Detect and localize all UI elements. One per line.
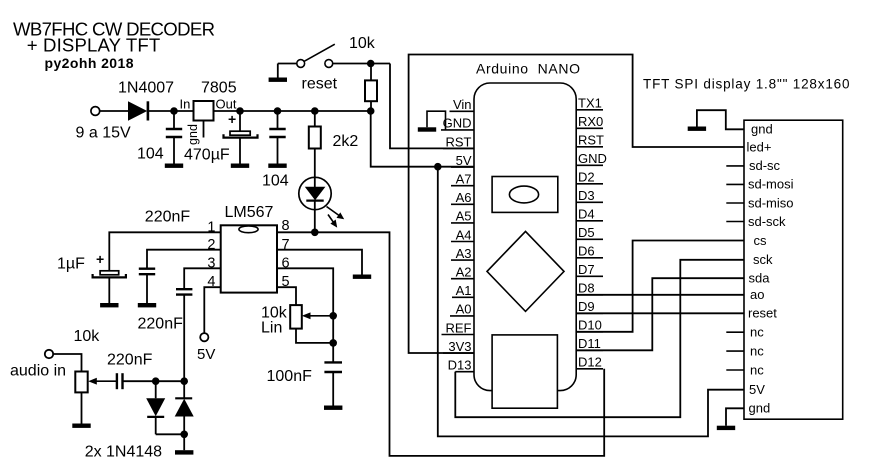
wire D8 to TFT ao — [576, 294, 744, 296]
svg-text:RST: RST — [578, 133, 604, 148]
svg-text:RX0: RX0 — [578, 114, 603, 129]
arduino chip diamond — [487, 231, 564, 311]
ground — [269, 78, 287, 82]
svg-text:104: 104 — [137, 146, 164, 163]
svg-text:gnd: gnd — [186, 124, 200, 145]
svg-text:Vin: Vin — [453, 97, 472, 112]
svg-text:A1: A1 — [456, 283, 472, 298]
svg-text:nc: nc — [750, 325, 764, 340]
wire — [156, 433, 185, 435]
svg-text:5V: 5V — [749, 382, 765, 397]
svg-text:audio in: audio in — [10, 363, 66, 380]
wire GND pin to ground — [427, 111, 446, 130]
node junction — [367, 107, 375, 115]
arduino usb connector — [492, 335, 557, 408]
svg-text:GND: GND — [443, 116, 472, 131]
wire pin3 — [184, 268, 221, 288]
resistor R2 10k — [370, 64, 372, 81]
svg-text:nc: nc — [750, 343, 764, 358]
svg-text:A5: A5 — [456, 209, 472, 224]
svg-text:gnd: gnd — [749, 401, 771, 416]
node junction — [434, 163, 442, 171]
svg-text:220nF: 220nF — [107, 352, 153, 369]
ground — [353, 275, 371, 279]
svg-text:D4: D4 — [578, 207, 595, 222]
wire pin8 to D12 — [277, 232, 604, 456]
svg-text:sck: sck — [753, 252, 773, 267]
svg-text:Arduino NANO: Arduino NANO — [476, 61, 580, 77]
potentiometer R4 10k Lin — [290, 305, 302, 329]
svg-text:D10: D10 — [578, 318, 602, 333]
svg-text:220nF: 220nF — [138, 316, 184, 333]
capacitor C6 220nF — [176, 288, 192, 290]
svg-text:sda: sda — [749, 271, 771, 286]
svg-text:220nF: 220nF — [145, 209, 191, 226]
svg-text:D3: D3 — [578, 188, 595, 203]
capacitor C4 1uF — [100, 271, 119, 275]
svg-text:TX1: TX1 — [578, 96, 602, 111]
svg-text:py2ohh 2018: py2ohh 2018 — [45, 55, 134, 71]
svg-text:cs: cs — [754, 233, 768, 248]
svg-text:+ DISPLAY TFT: + DISPLAY TFT — [27, 35, 161, 56]
wire tft gnd bottom to ground — [726, 408, 744, 425]
node junction — [311, 107, 319, 115]
svg-text:9 a 15V: 9 a 15V — [76, 125, 131, 142]
regulator gnd lead — [203, 121, 205, 138]
svg-text:7805: 7805 — [201, 80, 237, 97]
wire 5V down to TFT — [438, 167, 744, 437]
node 9-15V input terminal — [91, 107, 100, 116]
svg-text:3V3: 3V3 — [448, 339, 471, 354]
svg-text:470µF: 470µF — [184, 147, 230, 164]
ground — [173, 138, 175, 164]
svg-text:D2: D2 — [578, 170, 595, 185]
svg-text:reset: reset — [302, 76, 338, 93]
svg-text:REF: REF — [446, 320, 472, 335]
arduino body — [474, 83, 576, 391]
node 5V terminal — [200, 333, 208, 341]
ground — [81, 392, 83, 423]
svg-text:In: In — [180, 97, 191, 112]
IC U2 LM567 — [221, 225, 277, 292]
ground — [332, 373, 334, 406]
svg-text:D13: D13 — [448, 358, 472, 373]
svg-text:D12: D12 — [578, 355, 602, 370]
ground — [183, 434, 185, 450]
node audio in terminal — [45, 350, 53, 358]
svg-text:D5: D5 — [578, 225, 595, 240]
svg-text:Lin: Lin — [261, 320, 282, 337]
node junction — [311, 229, 319, 237]
LED arrows — [327, 207, 341, 217]
svg-text:A3: A3 — [456, 246, 472, 261]
wire — [296, 329, 333, 343]
svg-text:A2: A2 — [456, 265, 472, 280]
wire — [333, 63, 390, 65]
svg-text:A4: A4 — [456, 227, 472, 242]
svg-text:sd-miso: sd-miso — [748, 195, 794, 210]
wire pin6 — [277, 268, 333, 362]
wire — [100, 110, 128, 112]
ground — [277, 138, 279, 164]
wire 5V to arduino — [371, 111, 474, 167]
capacitor C8 220nF series — [116, 373, 118, 389]
wire D10 to TFT cs — [576, 241, 744, 332]
wire — [277, 64, 279, 78]
svg-text:2k2: 2k2 — [333, 133, 359, 150]
svg-text:D9: D9 — [578, 299, 595, 314]
regulator U1 7805 — [194, 101, 214, 121]
diode D4 1N4148 — [183, 381, 185, 398]
node junction — [329, 339, 337, 347]
capacitor C5 220nF — [139, 268, 155, 270]
node junction — [367, 60, 375, 68]
svg-text:104: 104 — [262, 173, 289, 190]
svg-text:sd-mosi: sd-mosi — [748, 177, 794, 192]
capacitor C7 100nF — [324, 361, 342, 363]
svg-text:1µF: 1µF — [57, 256, 85, 273]
diode D1 1N4007 — [128, 101, 147, 121]
svg-text:Out: Out — [216, 97, 237, 112]
node junction — [152, 377, 160, 385]
capacitor C1 104 — [173, 111, 175, 128]
LED D2 — [299, 177, 331, 209]
svg-text:10k: 10k — [349, 35, 376, 52]
wire D13 to TFT sck — [455, 260, 744, 417]
svg-text:LM567: LM567 — [225, 204, 274, 221]
svg-text:A7: A7 — [456, 172, 472, 187]
node junction — [274, 107, 282, 115]
node junction — [236, 107, 244, 115]
svg-text:100nF: 100nF — [267, 368, 313, 385]
svg-text:sd-sck: sd-sck — [748, 214, 786, 229]
svg-text:5V: 5V — [456, 153, 472, 168]
ground — [418, 127, 436, 131]
potentiometer wiper arrow — [309, 315, 333, 317]
wire pin4 — [204, 287, 220, 333]
ground — [146, 275, 148, 304]
ground — [108, 278, 110, 303]
wire — [53, 354, 81, 372]
ground — [239, 139, 241, 164]
wire — [123, 380, 185, 382]
svg-text:D7: D7 — [578, 262, 595, 277]
svg-text:A6: A6 — [456, 190, 472, 205]
wire — [183, 295, 185, 381]
svg-text:+: + — [228, 111, 236, 127]
svg-text:D8: D8 — [578, 281, 595, 296]
wire pin7 — [277, 250, 362, 275]
svg-text:D11: D11 — [578, 336, 601, 351]
wire — [148, 110, 194, 112]
wire — [314, 149, 316, 179]
svg-text:GND: GND — [578, 151, 607, 166]
svg-text:nc: nc — [750, 362, 764, 377]
diode D3 1N4148 — [155, 381, 157, 398]
potentiometer wiper arrow — [95, 380, 116, 382]
svg-text:TFT SPI display 1.8"" 128x160: TFT SPI display 1.8"" 128x160 — [643, 77, 850, 92]
svg-text:A0: A0 — [456, 302, 472, 317]
wire pin2 — [147, 250, 221, 268]
svg-text:10k: 10k — [74, 328, 101, 345]
wire D11 to TFT sda — [576, 278, 744, 350]
switch reset — [297, 60, 305, 68]
capacitor C3 104 — [277, 111, 279, 128]
resistor R1 2k2 — [314, 111, 316, 127]
svg-text:sd-sc: sd-sc — [749, 158, 781, 173]
wire D9 to TFT reset — [576, 312, 744, 314]
node junction — [180, 377, 188, 385]
svg-text:gnd: gnd — [751, 122, 773, 137]
svg-text:led+: led+ — [747, 139, 772, 154]
svg-text:ao: ao — [750, 287, 764, 302]
svg-text:D6: D6 — [578, 244, 595, 259]
potentiometer R5 10k audio — [75, 372, 87, 393]
svg-text:1N4007: 1N4007 — [118, 80, 174, 97]
node junction — [329, 312, 337, 320]
ground — [717, 426, 735, 430]
wire tft gnd top to ground — [697, 110, 744, 129]
arduino crystal — [492, 177, 558, 213]
tft display box — [744, 120, 843, 419]
svg-text:reset: reset — [748, 306, 777, 321]
node junction — [180, 431, 188, 439]
capacitor C2 470uF — [239, 111, 241, 131]
ground — [688, 127, 706, 131]
svg-text:5V: 5V — [197, 346, 215, 363]
wire 3V3 to TFT led+ — [409, 55, 744, 354]
svg-text:RST: RST — [446, 134, 472, 149]
wire 5V rail — [214, 110, 371, 112]
wire pin5 — [277, 287, 296, 305]
svg-text:2x 1N4148: 2x 1N4148 — [85, 444, 162, 461]
svg-text:+: + — [96, 251, 104, 267]
node junction — [170, 107, 178, 115]
wire pin1 — [109, 232, 220, 270]
wire reset to RST — [390, 64, 474, 149]
